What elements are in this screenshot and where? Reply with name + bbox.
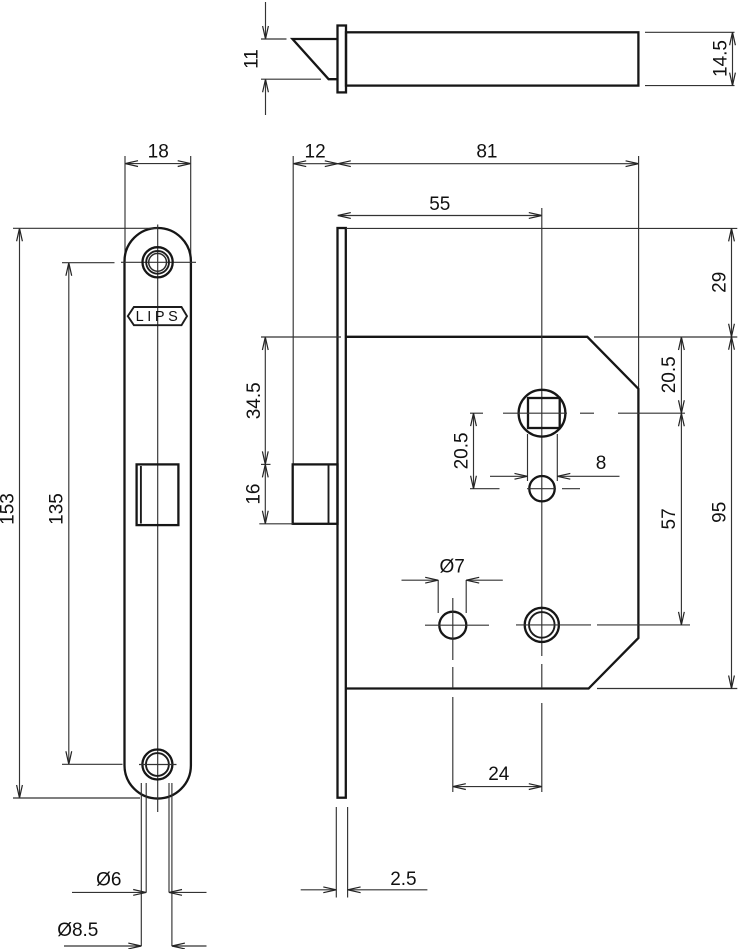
bottom screw hole centerline horizontal: [139, 764, 177, 766]
extension line case top right: [594, 336, 737, 338]
top screw hole (3 concentric circles): [143, 247, 173, 277]
faceplate cross-section (top view): [338, 26, 347, 93]
dim 2.5 (faceplate thickness): [335, 807, 337, 898]
dim 16 (latch height): [264, 464, 266, 523]
svg-text:14.5: 14.5: [710, 40, 731, 77]
diameter-7 hole vertical centerline: [452, 598, 454, 660]
faceplate vertical centerline: [157, 225, 159, 813]
svg-text:11: 11: [242, 49, 263, 69]
svg-text:Ø8.5: Ø8.5: [57, 920, 98, 941]
faceplate outline (front view, stadium shape): [125, 228, 191, 799]
dim 95 (case height): [731, 337, 733, 689]
svg-text:153: 153: [0, 493, 19, 525]
dim 153 (faceplate length): [19, 228, 21, 798]
svg-text:34.5: 34.5: [244, 382, 265, 419]
extension lines below faceplate for hole diameters: [140, 783, 142, 946]
dim 57 (spindle to lower hole): [680, 413, 682, 625]
svg-text:2.5: 2.5: [390, 869, 416, 890]
svg-text:20.5: 20.5: [659, 356, 680, 393]
svg-text:57: 57: [659, 508, 680, 529]
svg-text:16: 16: [244, 484, 265, 505]
spindle hole circle: [519, 390, 566, 437]
svg-text:Ø6: Ø6: [96, 870, 121, 891]
LIPS logo hexagon: [128, 307, 187, 325]
dim 81 (case depth): [338, 163, 639, 165]
dim diameter 8.5 (countersink): [64, 945, 141, 947]
lower fixing hole (2 concentric circles): [525, 608, 559, 642]
latch bolt (side view): [293, 464, 338, 523]
dim 135 (screw hole spacing): [68, 263, 70, 765]
svg-text:24: 24: [488, 764, 510, 785]
follower hole circle below spindle: [529, 476, 554, 501]
dim 14.5 (latch body height): [732, 32, 734, 85]
dim 20.5 right (case top to spindle): [680, 337, 682, 413]
svg-text:12: 12: [305, 141, 326, 162]
svg-text:81: 81: [476, 141, 497, 162]
svg-text:95: 95: [710, 502, 731, 523]
dim 34.5 (case top to latch): [264, 337, 266, 464]
dim 29 (faceplate top to case top): [731, 228, 733, 336]
latch bolt body (top view): [346, 32, 638, 85]
spindle horizontal centerline: [470, 412, 483, 414]
svg-text:18: 18: [148, 141, 169, 162]
top extension line across (29 dim): [346, 227, 737, 229]
dim diameter 7 (cylinder screw hole): [437, 580, 439, 613]
svg-text:29: 29: [710, 272, 731, 293]
dim 24 (hole spacing): [453, 786, 542, 788]
svg-text:135: 135: [46, 493, 67, 525]
dim 20.5 left (spindle to follower): [473, 413, 475, 489]
top screw hole centerline horizontal: [121, 261, 196, 263]
dim 8 (spindle square width): [527, 434, 529, 481]
hole diameter-7 circle: [439, 612, 466, 639]
dim 18 (faceplate width): [125, 163, 191, 165]
faceplate strip (side view): [338, 228, 346, 798]
svg-text:LIPS: LIPS: [136, 309, 182, 325]
svg-text:20.5: 20.5: [452, 432, 473, 469]
dim diameter 6 (screw hole): [72, 891, 146, 893]
diameter-7 hole horizontal centerline: [425, 624, 489, 626]
svg-text:55: 55: [429, 194, 450, 215]
svg-text:8: 8: [596, 453, 607, 474]
case bottom extension line: [597, 688, 737, 690]
spindle vertical centerline (55 / 24 extension): [541, 208, 543, 656]
latch opening (front view): [137, 464, 179, 525]
svg-text:Ø7: Ø7: [440, 557, 465, 578]
dim 12 (latch projection): [293, 163, 338, 165]
latch bolt bevel nose (top view): [293, 39, 338, 79]
bottom screw hole (2 concentric circles): [142, 750, 172, 780]
lock case outline with beveled corners: [346, 337, 638, 689]
spindle square 8mm: [528, 398, 560, 428]
dim 55 (backset): [338, 215, 542, 217]
extension lines for dim 14.5: [645, 31, 735, 33]
dim 11 (latch bevel height, top view): [265, 2, 267, 39]
lower hole horizontal centerline to 57 dim: [516, 624, 591, 626]
follower hole horizontal centerline: [470, 488, 500, 490]
